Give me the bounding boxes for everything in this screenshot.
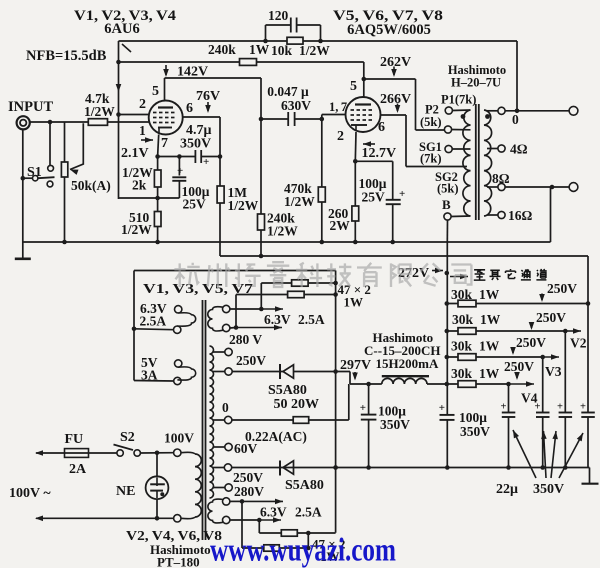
svg-text:S1: S1: [27, 165, 42, 180]
svg-text:250V: 250V: [536, 310, 566, 325]
wire 250V to diode1: [232, 371, 350, 373]
terminal P1: [445, 107, 452, 114]
svg-text:250V: 250V: [504, 359, 534, 374]
svg-text:16Ω: 16Ω: [508, 208, 533, 223]
wire grid2 V1: [119, 114, 150, 116]
resistor 30k row3: [447, 356, 542, 358]
svg-text:+: +: [360, 402, 366, 414]
wire V2 grid: [321, 115, 323, 120]
svg-text:50k(A): 50k(A): [71, 178, 111, 193]
resistor 240k 1W: [240, 59, 257, 66]
terminal P2: [444, 126, 451, 133]
svg-text:0: 0: [512, 112, 519, 127]
svg-text:P1(7k): P1(7k): [441, 93, 476, 107]
svg-text:30k: 30k: [451, 339, 473, 354]
resistor 240k (V2 grid upper): [260, 119, 262, 256]
input jack: [17, 116, 30, 129]
svg-text:1/2W: 1/2W: [228, 198, 259, 213]
capacitor 120pF plates: [290, 18, 292, 33]
transformer primary coil: [463, 110, 471, 216]
transformer secondary coil: [484, 110, 492, 216]
ground symbol: [22, 242, 24, 258]
resistor 47 upper B: [236, 294, 336, 296]
svg-text:B: B: [442, 197, 451, 212]
switch S2: [117, 450, 123, 456]
wire NFB to cathode net: [119, 197, 180, 199]
svg-text:6: 6: [186, 101, 193, 116]
wire filament arrows top: [230, 308, 261, 310]
tube V1 internals: [158, 106, 173, 108]
svg-text:250V: 250V: [236, 353, 266, 368]
svg-text:1/2W: 1/2W: [284, 194, 315, 209]
resistor 30k row4: [447, 383, 508, 385]
resistor 2k: [157, 157, 159, 199]
svg-text:6.3V: 6.3V: [264, 312, 291, 327]
svg-text:25V: 25V: [183, 197, 207, 212]
svg-text:100μ: 100μ: [459, 410, 487, 425]
svg-text:25V: 25V: [362, 190, 386, 205]
wire filament arrows bottom: [230, 500, 242, 502]
wire B- rail: [232, 467, 590, 469]
svg-text:0: 0: [222, 400, 229, 415]
capacitor 4.7u 350V plates: [194, 150, 196, 163]
capacitor 120pF bypass loop: [265, 25, 267, 41]
svg-text:1/2W: 1/2W: [299, 43, 330, 58]
neon lamp NE: [156, 453, 158, 477]
tube V2 6AQ5 envelope: [346, 97, 381, 132]
wire coupling line: [261, 118, 288, 120]
svg-text:12.7V: 12.7V: [362, 146, 397, 161]
wire 240k feedback line: [119, 61, 364, 63]
wire feedback to output tap: [516, 41, 518, 111]
svg-text:15H200mA: 15H200mA: [376, 356, 439, 371]
svg-text:250V: 250V: [516, 335, 546, 350]
diode S5A80 upper: [279, 364, 281, 379]
svg-text:www.wuyazi.com: www.wuyazi.com: [210, 533, 396, 568]
svg-text:30k: 30k: [451, 287, 473, 302]
wire 8ohm tap to terminal: [505, 186, 569, 188]
svg-text:8Ω: 8Ω: [492, 171, 510, 186]
wire mains top: [36, 452, 117, 454]
resistor 47 lower A: [258, 520, 260, 533]
potentiometer 50k(A): [64, 122, 66, 242]
svg-text:+: +: [177, 165, 183, 177]
PT HT winding coil: [210, 346, 214, 498]
svg-text:(5k): (5k): [437, 182, 459, 196]
resistor 30k row1: [447, 303, 588, 305]
wire V1 screen: [183, 116, 220, 118]
PT 6.3V top winding: [223, 305, 230, 312]
svg-text:2W: 2W: [330, 218, 351, 233]
svg-text:1W: 1W: [479, 287, 500, 302]
PT HT tap 60V: [213, 446, 225, 448]
resistor 47 lower B: [241, 501, 243, 548]
svg-text:PT–180: PT–180: [157, 555, 200, 568]
wire cathode node: [158, 156, 195, 158]
fuse FU 2A: [65, 449, 89, 458]
wire 0 line: [232, 419, 349, 421]
svg-text:H–20–7U: H–20–7U: [451, 76, 501, 90]
svg-text:5: 5: [350, 79, 357, 94]
svg-text:100V ~: 100V ~: [9, 486, 51, 501]
secondary phase dot: [485, 114, 490, 119]
PT 6.3V left winding: [175, 306, 182, 313]
wire V2 feed cap: [564, 331, 566, 412]
svg-text:250V: 250V: [547, 281, 577, 296]
wire ground bus: [23, 241, 551, 243]
secondary tap 0: [487, 110, 498, 112]
svg-text:FU: FU: [65, 432, 84, 447]
transformer core: [475, 104, 477, 220]
wire V1 plate: [164, 78, 166, 101]
svg-text:350V: 350V: [180, 137, 211, 152]
svg-text:280 V: 280 V: [229, 332, 262, 347]
svg-text:6.3V: 6.3V: [260, 505, 287, 520]
capacitor 22u V3: [536, 412, 550, 414]
output terminal bottom: [569, 183, 578, 192]
wire V1 feed cap: [587, 304, 589, 413]
svg-text:1W: 1W: [479, 366, 500, 381]
svg-text:630V: 630V: [281, 98, 311, 113]
resistor 47 upper A: [261, 282, 335, 284]
svg-text:60V: 60V: [234, 441, 258, 456]
svg-text:(7k): (7k): [420, 152, 442, 166]
svg-text:1/2W: 1/2W: [267, 224, 298, 239]
secondary tap 4ohm: [487, 148, 498, 150]
choke C-15-200CH: [382, 378, 427, 384]
svg-text:240k: 240k: [208, 42, 236, 57]
svg-text:2A: 2A: [69, 462, 87, 477]
gray watermark hangzhou company: [174, 262, 471, 287]
svg-text:100V: 100V: [164, 431, 194, 446]
svg-text:S2: S2: [120, 430, 135, 445]
PT HT tap 280V top: [213, 351, 225, 353]
PT primary coil: [195, 454, 201, 517]
svg-text:V2: V2: [570, 336, 587, 351]
svg-text:1, 7: 1, 7: [329, 100, 347, 114]
svg-text:350V: 350V: [460, 424, 490, 439]
wire top feedback line: [119, 40, 518, 42]
svg-text:350V: 350V: [380, 417, 410, 432]
svg-text:0.047 μ: 0.047 μ: [267, 84, 309, 99]
terminal B: [444, 213, 451, 220]
PT 6.3V bottom winding: [223, 498, 230, 505]
capacitor 100u 350V output: [440, 414, 455, 416]
svg-text:22μ: 22μ: [496, 482, 518, 497]
wire V2 screen: [381, 114, 407, 116]
wire V2 cathode: [354, 132, 357, 161]
capacitor 100u 350V input: [368, 384, 370, 414]
svg-text:3A: 3A: [141, 368, 158, 383]
svg-text:+: +: [501, 402, 507, 413]
svg-text:+: +: [439, 402, 445, 414]
wire 5V to box corner: [134, 380, 174, 383]
PT HT tap 0: [213, 419, 225, 421]
svg-text:2.5A: 2.5A: [140, 314, 167, 329]
resistor 10k: [287, 37, 303, 44]
resistor 50 20W: [293, 417, 309, 424]
svg-text:10k: 10k: [271, 43, 293, 58]
arrow mains bottom: [35, 516, 43, 522]
wire 4.7k to grid: [108, 121, 150, 123]
wire PSU right leg: [335, 271, 337, 533]
svg-text:S5A80: S5A80: [285, 478, 324, 493]
secondary tap 16ohm: [487, 214, 498, 216]
PT 5V winding: [175, 360, 182, 367]
resistor 1M: [219, 157, 221, 257]
PT primary top terminal: [174, 449, 181, 456]
wire V4 feed cap: [508, 384, 510, 412]
wire jack down to ground: [22, 130, 24, 243]
capacitor 100u 25V (V1 cathode): [178, 157, 180, 176]
svg-text:1W: 1W: [249, 42, 270, 57]
svg-text:1/2W: 1/2W: [121, 222, 152, 237]
svg-text:2: 2: [139, 97, 146, 112]
svg-text:266V: 266V: [380, 92, 411, 107]
wire 6.3V left to box: [134, 328, 174, 331]
svg-text:1/2W: 1/2W: [84, 104, 115, 119]
svg-text:NFB=15.5dB: NFB=15.5dB: [26, 48, 107, 64]
svg-text:262V: 262V: [380, 55, 411, 70]
label to-other-channels (CJK): [474, 269, 547, 280]
PT HT tap 250V upper: [213, 371, 225, 373]
svg-text:1W: 1W: [480, 312, 501, 327]
resistor 4.7k: [88, 119, 107, 126]
PT core: [202, 300, 204, 540]
wire V3 feed cap: [542, 357, 544, 412]
svg-text:NE: NE: [116, 484, 135, 499]
wire diode1 output to node: [349, 372, 351, 385]
wire PSU left leg: [133, 271, 135, 381]
svg-text:350V: 350V: [533, 482, 564, 497]
PT HT tap 250V lower: [213, 467, 224, 469]
resistor 470k: [321, 119, 323, 242]
wire B+ vertical: [446, 242, 448, 415]
wire 0 tap to terminal: [505, 110, 569, 112]
switch S1: [48, 165, 54, 171]
svg-text:1W: 1W: [479, 339, 500, 354]
capacitor 100u 25V (V2 cathode): [355, 160, 392, 162]
terminal SG1: [445, 145, 452, 152]
primary phase dot: [461, 114, 466, 119]
wire jack branch to S1: [49, 122, 51, 165]
svg-text:+: +: [535, 402, 541, 413]
capacitor 22u V4: [502, 412, 516, 414]
svg-text:6: 6: [378, 120, 385, 135]
svg-text:6AQ5W/6005: 6AQ5W/6005: [347, 22, 431, 38]
wire mains bottom: [36, 517, 173, 519]
svg-text:V3: V3: [545, 364, 562, 379]
arrow mains top: [35, 450, 43, 456]
capacitor 22u V2: [559, 412, 573, 414]
secondary tap 8ohm: [487, 186, 498, 188]
wire bottom rail to 250V-V1: [220, 255, 588, 257]
arrows to 22u caps: [513, 430, 536, 478]
PT primary bottom terminal: [174, 515, 181, 522]
svg-text:1W: 1W: [344, 295, 364, 310]
svg-text:2.5A: 2.5A: [298, 312, 325, 327]
svg-text:(5k): (5k): [420, 115, 442, 129]
capacitor 22u V1: [581, 412, 595, 414]
svg-text:+: +: [203, 156, 209, 168]
svg-text:4Ω: 4Ω: [510, 142, 528, 157]
svg-text:+: +: [557, 402, 563, 413]
stray mark: [122, 44, 131, 52]
tube V1 6AU6 envelope: [149, 101, 183, 135]
rail end stub: [589, 468, 591, 484]
wire 297V node: [350, 383, 382, 385]
svg-text:280V: 280V: [234, 484, 264, 499]
resistor 260 2W: [354, 161, 356, 242]
svg-text:S5A80: S5A80: [268, 383, 307, 398]
svg-text:1: 1: [139, 123, 146, 138]
wire PSU top line: [134, 270, 336, 272]
wire V1 cathode: [158, 135, 159, 157]
svg-text:+: +: [399, 188, 405, 200]
svg-text:5: 5: [152, 84, 159, 99]
diode S5A80 lower: [279, 461, 281, 476]
svg-text:30k: 30k: [451, 366, 473, 381]
resistor 30k row2: [447, 330, 565, 332]
svg-text:6AU6: 6AU6: [104, 21, 139, 37]
svg-text:INPUT: INPUT: [8, 99, 53, 115]
svg-text:250V: 250V: [233, 470, 263, 485]
svg-text:2k: 2k: [132, 178, 147, 193]
svg-text:2: 2: [337, 129, 344, 144]
svg-text:30k: 30k: [452, 312, 474, 327]
resistor 510: [157, 198, 159, 242]
output terminal top: [569, 106, 578, 115]
wire V2 plate: [363, 79, 365, 97]
arrow to other channels: [450, 276, 468, 278]
wire NFB vertical: [118, 41, 120, 199]
svg-text:+: +: [580, 402, 586, 413]
svg-text:7: 7: [161, 136, 168, 151]
svg-text:2.5A: 2.5A: [295, 505, 322, 520]
wire input line: [30, 121, 88, 123]
svg-text:50 20W: 50 20W: [274, 397, 320, 412]
svg-text:2.1V: 2.1V: [121, 146, 149, 161]
tube V2 internals: [355, 103, 371, 105]
wire ground to speaker terminal: [550, 187, 552, 242]
PT HT tap 280V bottom: [213, 487, 225, 489]
capacitor 0.047u 630V plates: [287, 112, 289, 126]
wire S2 to PT: [140, 452, 173, 454]
svg-text:120: 120: [268, 8, 289, 23]
svg-text:76V: 76V: [196, 89, 220, 104]
wire choke out: [427, 383, 447, 385]
